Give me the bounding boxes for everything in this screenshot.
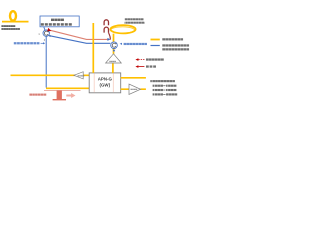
legend: test pulse arrow (dashed) [138,59,144,61]
legend sensing fiber [151,45,160,47]
label: measurement fiber [125,18,127,20]
svg-text:APN-G: APN-G [98,76,113,81]
APN-G (GW) box [89,73,121,93]
reflected light line (salmon) [50,30,107,39]
box: fiber sensing instrument [40,16,79,27]
amp triangle pointing left [74,72,83,79]
fiber coil icon top-left [2,21,29,23]
fiber right of box A [121,77,146,79]
note: circulator behaviour [150,80,152,82]
blue arrow into right circulator port1 [107,38,110,41]
label: sokutei data wo kaiseki kyoten made tensou [1,25,3,27]
amp triangle pointing right [129,84,141,95]
circulator left [43,30,49,36]
block arrow right [66,93,75,98]
label: hikari circulator (right) [120,43,122,45]
fiber via amp/circulator chain [112,34,115,73]
fiber ring coil [110,25,135,33]
communication fiber line 1 [11,74,90,76]
communication fiber line 2 [46,87,89,89]
wire: box to circulator [44,27,45,31]
fiber right of box B [121,88,146,90]
legend comm fiber [151,39,160,41]
device connection fiber (blue) [49,36,111,44]
pulse waveform [44,89,81,91]
amp triangle up [106,54,122,63]
svg-text:(GW): (GW) [100,83,111,88]
blue vertical from circulator down [45,36,47,87]
label: hikari circulator (left) [14,42,17,44]
long fiber up from box [92,23,94,73]
legend: reflected light arrow [138,66,144,68]
blue arrow down from circulator [113,50,116,53]
red coiled fiber arrow [104,20,108,26]
circulator right [111,42,118,49]
label: test light pulse (red) [29,94,32,96]
